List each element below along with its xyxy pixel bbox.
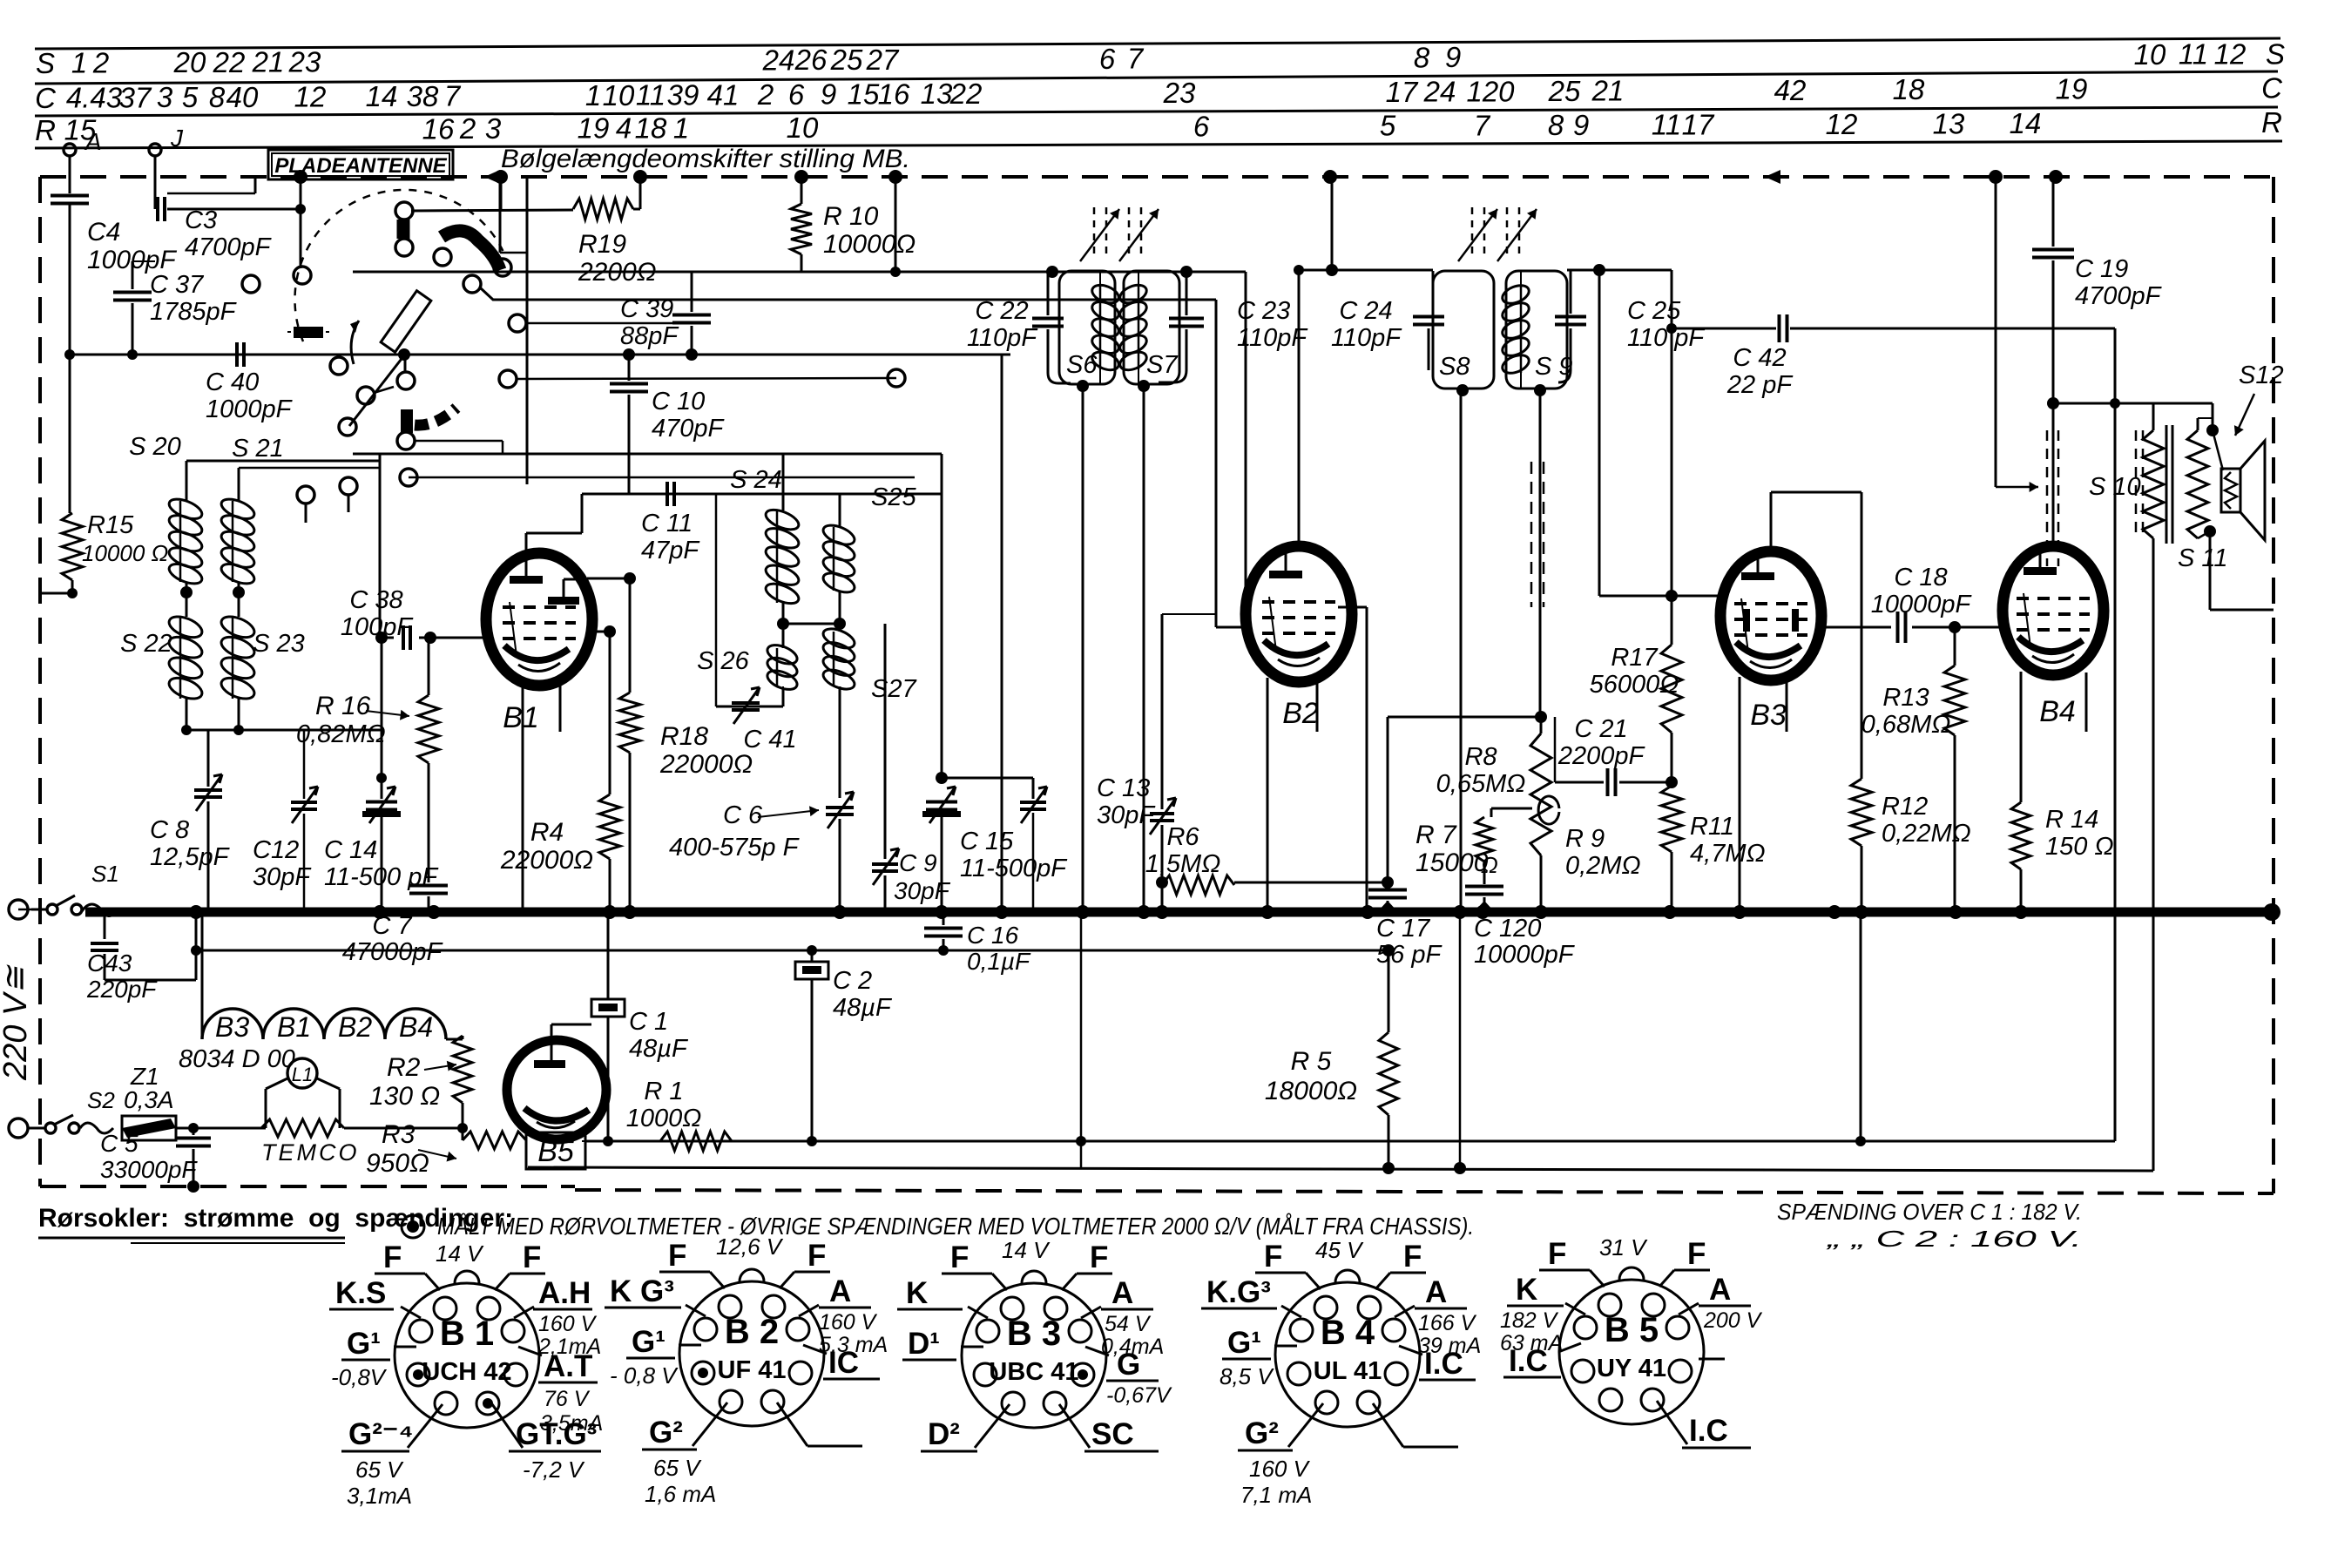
svg-text:A: A — [1111, 1276, 1133, 1310]
svg-text:470pF: 470pF — [652, 415, 726, 443]
svg-text:B1: B1 — [277, 1011, 311, 1043]
junction on top border — [633, 170, 647, 184]
svg-text:65 V: 65 V — [653, 1455, 702, 1481]
svg-text:I.C: I.C — [1509, 1344, 1548, 1378]
socket B4 label G2 — [1288, 1403, 1323, 1447]
IF1 tuning arrows — [1093, 207, 1096, 254]
svg-text:48µF: 48µF — [833, 994, 893, 1022]
svg-text:0,65MΩ: 0,65MΩ — [1436, 770, 1526, 798]
socket B5 label IC left — [1558, 1343, 1581, 1352]
capacitor C23 — [1186, 272, 1188, 315]
dashed pair x2352 — [2046, 430, 2049, 566]
svg-text:6: 6 — [1193, 110, 1210, 142]
svg-text:27: 27 — [866, 44, 900, 76]
svg-text:9: 9 — [1445, 41, 1461, 73]
svg-text:C 1: C 1 — [629, 1008, 668, 1036]
svg-text:25: 25 — [830, 44, 863, 76]
R17 column top — [1671, 270, 1673, 596]
IF2 S9 bottom — [1534, 384, 1546, 396]
svg-text:C 15: C 15 — [960, 828, 1014, 855]
capacitor C5 — [193, 1128, 195, 1135]
svg-text:A: A — [1709, 1273, 1731, 1307]
svg-text:160 V: 160 V — [1249, 1456, 1311, 1482]
IF1 S7 coil — [1118, 281, 1149, 307]
svg-text:C 9: C 9 — [899, 849, 937, 876]
svg-text:17: 17 — [1682, 108, 1715, 140]
svg-text:S 20: S 20 — [129, 433, 181, 461]
AVC vertical x1334 — [1161, 614, 1164, 809]
wire y434 — [517, 378, 896, 379]
svg-text:56 pF: 56 pF — [1376, 941, 1443, 969]
svg-text:11: 11 — [2179, 38, 2208, 71]
svg-text:G²: G² — [1245, 1416, 1279, 1450]
svg-text:IC: IC — [828, 1346, 859, 1380]
svg-text:19: 19 — [578, 112, 610, 145]
svg-text:12,5pF: 12,5pF — [150, 843, 231, 871]
socket B5 top leads — [1590, 1270, 1605, 1287]
svg-text:S 24: S 24 — [730, 466, 782, 494]
svg-text:C43: C43 — [87, 950, 132, 977]
wire y684 to B3 — [1599, 595, 1722, 598]
svg-text:S27: S27 — [871, 675, 917, 703]
capacitor C16 — [943, 912, 945, 925]
ruler line 2 — [35, 71, 2278, 84]
svg-text:S 21: S 21 — [232, 435, 284, 463]
socket B4 lead bottom right — [1373, 1403, 1403, 1447]
svg-text:14: 14 — [366, 80, 398, 112]
svg-text:-0,8V: -0,8V — [331, 1364, 388, 1390]
svg-text:C 5: C 5 — [100, 1130, 139, 1157]
svg-text:1: 1 — [585, 79, 601, 112]
svg-text:0,3A: 0,3A — [124, 1086, 174, 1113]
socket B3 label A — [1081, 1307, 1101, 1318]
svg-text:C: C — [35, 82, 57, 114]
svg-text:R12: R12 — [1882, 793, 1928, 821]
svg-text:B4: B4 — [399, 1011, 433, 1043]
svg-text:F: F — [383, 1240, 402, 1274]
svg-text:22: 22 — [213, 46, 246, 78]
capacitor C18 — [1819, 626, 1891, 629]
bus junction — [373, 905, 387, 919]
socket B5 dash right — [1699, 1358, 1725, 1361]
capacitor C7 — [409, 884, 448, 888]
capacitor C40 — [235, 342, 239, 367]
wire R3-B5 to return — [582, 1140, 589, 1142]
dashed border right — [2272, 177, 2275, 1193]
svg-text:S: S — [36, 47, 55, 79]
svg-text:B 5: B 5 — [1605, 1311, 1659, 1349]
socket B2 label K G3 — [686, 1305, 706, 1316]
svg-text:24: 24 — [1423, 76, 1456, 108]
dashed pair left of S10 — [2135, 430, 2138, 533]
svg-text:14 V: 14 V — [436, 1240, 484, 1267]
label PLADEANTENNE — [268, 150, 453, 179]
socket B3 label SC — [1059, 1404, 1090, 1448]
junction on top border — [1323, 170, 1337, 184]
wire B5 anode — [551, 1024, 553, 1041]
wire right bypass vertical — [1860, 912, 1862, 1141]
socket B3 label D2 — [975, 1404, 1010, 1448]
svg-text:R19: R19 — [578, 230, 626, 259]
svg-text:200 V: 200 V — [1703, 1308, 1763, 1333]
svg-text:R6: R6 — [1166, 823, 1199, 851]
svg-text:12,6 V: 12,6 V — [716, 1233, 784, 1260]
wire x1081 upper — [941, 454, 943, 778]
svg-text:14: 14 — [2010, 107, 2042, 139]
svg-text:47000pF: 47000pF — [342, 938, 444, 966]
svg-text:F: F — [807, 1239, 826, 1273]
svg-text:21: 21 — [1591, 75, 1625, 107]
varcap C41 — [732, 701, 760, 705]
wire y548 — [409, 476, 915, 479]
ruler line 3 — [35, 107, 2278, 116]
IF2 S9 box2 — [1506, 271, 1567, 389]
svg-text:4,7MΩ: 4,7MΩ — [1690, 840, 1766, 868]
varcap C13 — [1150, 812, 1174, 815]
resistor R3 — [463, 1132, 526, 1149]
B4 anode wire — [2052, 403, 2055, 547]
svg-text:C3: C3 — [185, 206, 217, 234]
pot R8 wiper — [1538, 796, 1559, 824]
svg-text:C 7: C 7 — [372, 912, 413, 940]
svg-text:MÅLT MED RØRVOLTMETER - ØVRI: MÅLT MED RØRVOLTMETER - ØVRIGE SPÆNDINGE… — [437, 1213, 1474, 1240]
svg-text:C4: C4 — [87, 218, 120, 247]
wire y838 — [186, 729, 383, 732]
svg-text:J: J — [170, 125, 184, 152]
svg-text:37: 37 — [119, 81, 152, 113]
svg-text:16: 16 — [878, 78, 910, 110]
svg-text:B3: B3 — [215, 1011, 249, 1043]
svg-text:1785pF: 1785pF — [150, 298, 238, 326]
dashed border bottom-right — [575, 1190, 2274, 1193]
svg-text:166 V: 166 V — [1418, 1311, 1477, 1335]
ruler line 4 — [35, 141, 2282, 148]
svg-text:K G³: K G³ — [610, 1274, 674, 1308]
tube B5 — [507, 1040, 606, 1139]
svg-text:F: F — [1548, 1237, 1566, 1271]
bus junction — [935, 905, 949, 919]
socket B1 label A.H — [514, 1307, 534, 1318]
svg-text:220 V≅: 220 V≅ — [0, 964, 34, 1081]
capacitor C37 — [132, 261, 134, 289]
svg-text:C 38: C 38 — [349, 586, 402, 614]
svg-text:3: 3 — [157, 81, 173, 113]
resistor R5 — [1388, 950, 1390, 1032]
socket B3 — [962, 1283, 1106, 1428]
svg-text:SC: SC — [1091, 1417, 1134, 1451]
svg-text:11: 11 — [1652, 109, 1681, 141]
svg-text:R 7: R 7 — [1415, 821, 1457, 849]
svg-text:39: 39 — [667, 78, 699, 111]
svg-text:1: 1 — [673, 112, 689, 144]
svg-text:UY 41: UY 41 — [1597, 1355, 1666, 1382]
bus junction — [2014, 905, 2028, 919]
svg-text:K.G³: K.G³ — [1206, 1275, 1271, 1309]
svg-text:2: 2 — [757, 78, 774, 111]
svg-text:12: 12 — [1826, 108, 1858, 140]
svg-text:R17: R17 — [1611, 644, 1659, 672]
varcap C15a — [926, 801, 957, 804]
svg-text:220pF: 220pF — [86, 976, 158, 1003]
svg-text:12: 12 — [2214, 37, 2247, 70]
svg-text:R 1: R 1 — [644, 1078, 683, 1105]
chassis bus — [85, 908, 2272, 917]
IF2 S8 bottom — [1456, 384, 1469, 396]
capacitor C19 — [2052, 177, 2055, 247]
rotary switch bar — [294, 327, 323, 338]
svg-text:G¹: G¹ — [1227, 1326, 1261, 1360]
svg-text:56000Ω: 56000Ω — [1590, 671, 1679, 699]
svg-text:B 1: B 1 — [440, 1315, 494, 1353]
svg-text:C 2: C 2 — [833, 967, 872, 995]
svg-text:42: 42 — [1774, 74, 1807, 106]
svg-text:UL 41: UL 41 — [1314, 1357, 1382, 1385]
svg-text:R4: R4 — [530, 818, 564, 847]
svg-text:0,68MΩ: 0,68MΩ — [1861, 711, 1951, 739]
svg-text:C 8: C 8 — [150, 816, 189, 844]
svg-text:22000Ω: 22000Ω — [500, 846, 593, 875]
svg-text:GT.G³: GT.G³ — [516, 1417, 597, 1451]
resistor R13 — [1954, 627, 1956, 666]
socket B1 label GT.G3 — [492, 1404, 523, 1448]
svg-text:UF 41: UF 41 — [718, 1356, 787, 1384]
socket B5 label IC bottom — [1657, 1401, 1687, 1444]
AC terminal lower — [9, 1119, 28, 1138]
svg-text:S7: S7 — [1146, 351, 1179, 379]
svg-text:23: 23 — [288, 46, 321, 78]
svg-text:R 16: R 16 — [315, 692, 371, 720]
junction on top border — [294, 170, 307, 184]
svg-text:1,6 mA: 1,6 mA — [645, 1481, 716, 1507]
speaker — [2212, 403, 2214, 430]
svg-text:C 19: C 19 — [2075, 255, 2128, 283]
svg-text:8: 8 — [1414, 41, 1430, 73]
svg-text:S 9: S 9 — [1535, 353, 1573, 381]
svg-text:F: F — [523, 1240, 541, 1274]
rotary switch arrow — [351, 321, 359, 364]
svg-text:K: K — [906, 1276, 928, 1310]
svg-text:23: 23 — [1163, 77, 1196, 109]
svg-text:5: 5 — [182, 81, 199, 113]
svg-text:7: 7 — [1474, 109, 1491, 141]
svg-text:40: 40 — [226, 81, 259, 113]
junction on top border — [1989, 170, 2003, 184]
svg-text:B 2: B 2 — [725, 1313, 779, 1351]
svg-text:9: 9 — [821, 78, 836, 111]
IF1 S6 coil — [1090, 281, 1121, 307]
junction on top border — [2049, 170, 2063, 184]
svg-text:C 13: C 13 — [1097, 774, 1150, 802]
lamp L1 — [287, 1058, 317, 1088]
svg-text:1000Ω: 1000Ω — [626, 1105, 702, 1132]
socket B2 label G2 — [693, 1402, 727, 1446]
svg-text:S 10: S 10 — [2089, 473, 2141, 501]
svg-text:C 39: C 39 — [620, 295, 673, 323]
wire y310 B2 to S8 — [1299, 269, 1433, 272]
svg-text:33000pF: 33000pF — [100, 1156, 198, 1183]
arrowhead on top border — [1765, 170, 1780, 184]
rotary switch stubs — [349, 355, 404, 426]
resistor R11 — [1661, 786, 1682, 852]
socket B1 label G1 — [394, 1346, 416, 1348]
svg-text:C 37: C 37 — [150, 271, 205, 299]
tube B3 pins — [1739, 677, 1741, 912]
bus junction — [995, 905, 1009, 919]
socket B1 top leads — [425, 1274, 440, 1290]
wire x1836 — [1598, 270, 1601, 596]
socket B3 label D1 — [961, 1346, 983, 1348]
wire x1028 from border — [895, 177, 897, 272]
wire y371 — [526, 322, 678, 325]
svg-text:Bølgelængdeomskifter stillin: Bølgelængdeomskifter stilling MB. — [501, 145, 910, 173]
svg-text:G: G — [1117, 1348, 1140, 1382]
svg-text:7: 7 — [1127, 43, 1145, 75]
bus junction — [603, 905, 617, 919]
ruler line 1 — [35, 38, 2280, 49]
bus junction — [1534, 905, 1548, 919]
capacitor C22 — [1047, 272, 1050, 315]
AVC dashed pair — [1530, 462, 1533, 607]
legend bullet — [402, 1215, 424, 1238]
vertical x722 C10 — [628, 355, 631, 381]
resistor R10 — [801, 177, 803, 204]
svg-text:S 11: S 11 — [2178, 544, 2228, 572]
IF2 S8 box2 — [1433, 271, 1494, 389]
resistor R14 — [2020, 801, 2022, 803]
junction on top border — [888, 170, 902, 184]
socket B2 lead bottom right — [777, 1402, 807, 1446]
resistor R16 — [428, 638, 430, 695]
svg-text:R 10: R 10 — [823, 202, 879, 231]
bus junction — [1855, 905, 1868, 919]
svg-text:3,1mA: 3,1mA — [347, 1483, 412, 1509]
wire TEMCO to R2 — [344, 1127, 463, 1130]
svg-text:3: 3 — [485, 112, 502, 145]
bus junction — [427, 905, 441, 919]
svg-text:G¹: G¹ — [347, 1327, 381, 1361]
dashed border left — [38, 177, 42, 1186]
svg-text:G¹: G¹ — [632, 1325, 666, 1359]
switch S1 — [47, 904, 57, 915]
tube B4 — [2003, 546, 2104, 675]
wire lowest return y1340 — [528, 1167, 2153, 1171]
socket B1 — [395, 1283, 539, 1428]
svg-text:C 17: C 17 — [1376, 915, 1431, 943]
svg-text:11-500pF: 11-500pF — [960, 855, 1068, 882]
svg-text:54 V: 54 V — [1105, 1312, 1152, 1336]
svg-text:30pF: 30pF — [1097, 801, 1156, 829]
svg-text:F: F — [1090, 1240, 1108, 1274]
svg-text:4.43: 4.43 — [66, 82, 123, 114]
socket B5 label A — [1679, 1303, 1699, 1315]
varcap C6 — [826, 806, 854, 809]
svg-text:1000pF: 1000pF — [206, 395, 294, 423]
svg-text:5: 5 — [1380, 110, 1396, 142]
svg-text:- 0,8 V: - 0,8 V — [610, 1362, 679, 1389]
svg-text:10000pF: 10000pF — [1474, 941, 1576, 969]
coil S25 — [821, 522, 857, 549]
socket B4 label IC — [1399, 1346, 1422, 1355]
svg-text:-7,2 V: -7,2 V — [523, 1456, 585, 1483]
wire y407 long — [70, 354, 1010, 356]
dashed border top — [40, 175, 2274, 179]
bus junction — [1949, 905, 1963, 919]
svg-text:C 6: C 6 — [723, 801, 763, 829]
bus junction — [1733, 905, 1747, 919]
B2 g3 wire — [1338, 606, 1367, 609]
svg-text:8: 8 — [1548, 109, 1564, 141]
svg-text:2: 2 — [459, 112, 476, 145]
B3 anode wire — [1770, 492, 1773, 552]
svg-text:1: 1 — [71, 47, 87, 79]
resistor R6 — [1162, 875, 1234, 895]
svg-text:9: 9 — [1573, 109, 1589, 141]
capacitor C43 — [104, 913, 106, 939]
bus junction — [1828, 905, 1841, 919]
svg-text:160 V: 160 V — [538, 1312, 598, 1336]
bus junction — [1076, 905, 1090, 919]
svg-text:4700pF: 4700pF — [2075, 282, 2163, 310]
svg-text:B2: B2 — [338, 1011, 372, 1043]
IF1 S7 box — [1124, 271, 1179, 384]
junction S20 S21 — [180, 586, 193, 598]
wire y463 — [2053, 402, 2213, 405]
socket B3 label G — [1085, 1347, 1109, 1355]
svg-text:D²: D² — [928, 1417, 960, 1451]
svg-text:10: 10 — [2134, 38, 2166, 71]
svg-text:G²: G² — [649, 1416, 683, 1450]
svg-text:C 18: C 18 — [1894, 564, 1947, 591]
svg-text:20: 20 — [173, 46, 206, 78]
svg-text:4: 4 — [616, 112, 632, 145]
junction on top border — [494, 170, 508, 184]
svg-text:110pF: 110pF — [1331, 324, 1402, 352]
svg-text:B4: B4 — [2039, 695, 2076, 728]
resistor R4 — [609, 632, 611, 794]
capacitor C120 — [1465, 885, 1503, 889]
bus junction — [189, 905, 203, 919]
svg-text:160 V: 160 V — [819, 1310, 878, 1335]
resistor R1 — [660, 1132, 732, 1151]
socket B2 top leads — [710, 1272, 725, 1288]
wire x2291 down — [1995, 177, 1997, 487]
svg-text:D¹: D¹ — [908, 1327, 940, 1361]
socket B3 top leads — [992, 1274, 1007, 1290]
socket B1 label A.T — [518, 1347, 542, 1355]
svg-text:R15: R15 — [87, 511, 134, 539]
IF2 S8 box — [1439, 271, 1442, 389]
wire S1 to bus — [18, 909, 31, 911]
bus junction — [623, 905, 637, 919]
svg-text:R8: R8 — [1464, 743, 1497, 771]
svg-text:100pF: 100pF — [341, 613, 415, 641]
svg-text:A: A — [829, 1274, 851, 1308]
coil S22 — [186, 592, 188, 617]
svg-text:F: F — [1264, 1240, 1282, 1274]
terminal A — [64, 144, 76, 156]
vertical x794 C39 — [691, 272, 693, 312]
svg-text:2: 2 — [92, 47, 109, 79]
svg-text:47pF: 47pF — [641, 537, 700, 564]
svg-text:S 23: S 23 — [253, 630, 305, 658]
coil S26 — [765, 641, 800, 667]
svg-text:A.H: A.H — [538, 1276, 591, 1310]
varcap C8 — [207, 730, 210, 787]
svg-text:B 3: B 3 — [1007, 1315, 1061, 1353]
IF1 S7 bottom — [1138, 380, 1150, 392]
svg-text:15000: 15000 — [1415, 848, 1489, 877]
junction on top border — [794, 170, 808, 184]
